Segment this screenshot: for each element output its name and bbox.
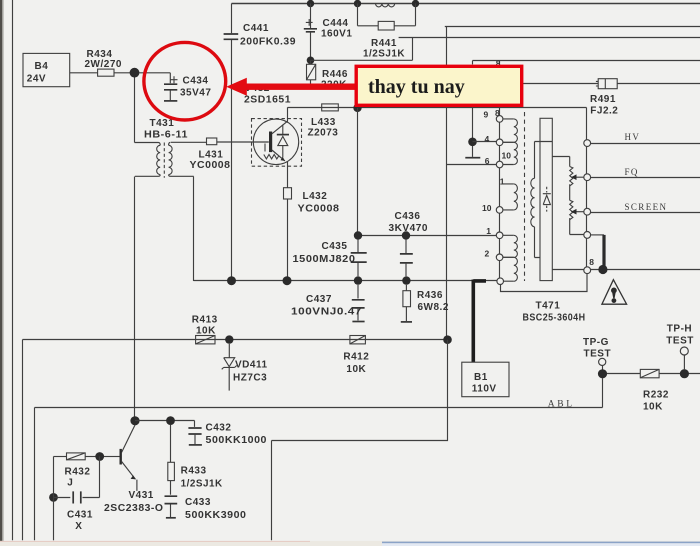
wire T431 bottom-right down to ground line: [193, 177, 195, 282]
svg-text:9: 9: [484, 109, 489, 119]
flyback T471: [482, 108, 586, 323]
svg-text:R412: R412: [343, 352, 369, 363]
svg-text:R446: R446: [322, 69, 348, 80]
resistor R232: [640, 369, 669, 412]
pin circle 8: [584, 267, 591, 274]
svg-text:1500MJ820: 1500MJ820: [293, 254, 356, 265]
svg-text:10: 10: [482, 203, 492, 213]
inductor L433: [322, 104, 339, 111]
node rail-R441: [412, 0, 419, 7]
thick wire to B1: [473, 280, 486, 363]
T471 winding 4-6: [503, 142, 514, 164]
T471 winding 9-4: [503, 119, 514, 142]
T471 winding 1-2: [503, 235, 514, 257]
wire 24V node down to T431: [134, 77, 136, 142]
pin circle 4: [496, 139, 503, 146]
svg-text:24V: 24V: [27, 74, 46, 85]
node collector/L433: [353, 104, 361, 112]
annotation red circle: [144, 42, 226, 120]
svg-text:C432: C432: [206, 423, 232, 434]
node rail-L: [354, 0, 361, 7]
svg-text:C433: C433: [185, 497, 211, 508]
node C441 gnd: [227, 276, 236, 285]
node C431 left: [49, 493, 58, 502]
svg-text:VD411: VD411: [235, 360, 268, 371]
wire left loop vertical: [53, 457, 55, 541]
svg-text:thay tu nay: thay tu nay: [368, 76, 465, 98]
svg-text:B1: B1: [474, 372, 488, 383]
svg-text:HB-6-11: HB-6-11: [144, 129, 188, 140]
svg-text:R413: R413: [192, 314, 218, 325]
resistor R446: [305, 60, 348, 90]
pin circle 1: [496, 232, 503, 239]
wire thick drop: [602, 235, 605, 268]
svg-text:YC0008: YC0008: [190, 160, 231, 171]
pin circle 8/9: [496, 116, 503, 123]
svg-text:J: J: [67, 478, 73, 489]
test point TP-H: [666, 323, 694, 369]
wire node down to snubber line: [357, 108, 359, 236]
svg-text:8: 8: [495, 108, 500, 118]
wire R434 to node: [114, 72, 170, 74]
wire ground drop to flyback pin4: [472, 61, 474, 157]
capacitor C433: [165, 481, 247, 521]
T471 HV secondary box: [540, 118, 552, 280]
node C436 top: [402, 231, 410, 239]
capacitor C432: [188, 423, 267, 447]
svg-text:C431: C431: [67, 509, 93, 520]
node emitter gnd: [283, 276, 292, 285]
wire collector line to flyback: [288, 107, 587, 109]
zener VD411: [222, 344, 268, 391]
wire FQ out: [591, 177, 700, 179]
capacitor C435: [293, 239, 367, 276]
svg-text:R232: R232: [643, 390, 669, 401]
wire B+ feed right: [445, 26, 700, 28]
svg-text:FJ2.2: FJ2.2: [590, 106, 618, 117]
node TP-H: [680, 369, 689, 378]
box B1 110V: [462, 362, 509, 397]
svg-text:TP-G: TP-G: [583, 337, 609, 348]
test point TP-G: [583, 337, 611, 370]
svg-text:4: 4: [485, 134, 490, 144]
node VD411: [225, 335, 233, 343]
node C435 gnd: [354, 276, 362, 284]
page border vertical rule: [12, 0, 14, 540]
T471 HV winding: [535, 142, 553, 179]
node C444/R446: [307, 57, 315, 65]
svg-text:R491: R491: [590, 94, 616, 105]
svg-text:200FK0.39: 200FK0.39: [240, 36, 296, 47]
bottom scan band: [0, 541, 700, 546]
node pin4 gnd: [468, 138, 477, 147]
T431 core: [163, 143, 165, 178]
svg-text:B4: B4: [35, 61, 49, 72]
inductor on top rail (cut off at top): [376, 4, 395, 7]
svg-text:2W/270: 2W/270: [85, 59, 122, 70]
svg-text:100VNJ0.47: 100VNJ0.47: [291, 307, 362, 318]
wire base node vertical: [99, 457, 101, 498]
pin circle bottom: [497, 278, 504, 285]
capacitor C434: [164, 73, 211, 101]
wire top rail: [232, 3, 700, 5]
annotation yellow note box: [356, 66, 522, 105]
pin circle HV: [584, 140, 591, 147]
pin circle SCREEN: [584, 208, 591, 215]
wire collector bus: [135, 421, 195, 427]
svg-text:8: 8: [589, 257, 594, 267]
node feedback/sense: [443, 335, 452, 344]
node abl: [598, 265, 607, 274]
wire right bus 2: [399, 37, 700, 39]
svg-text:C444: C444: [323, 18, 349, 29]
node R433 top: [166, 416, 175, 425]
wire T431 bottom-left down to V431 collector: [134, 177, 136, 417]
svg-text:C436: C436: [395, 211, 421, 222]
wire B4 to R434: [70, 72, 98, 74]
svg-text:6W8.2: 6W8.2: [418, 302, 449, 313]
resistor R432: [54, 453, 96, 489]
inductor L431: [207, 138, 217, 145]
svg-text:2SD1651: 2SD1651: [244, 95, 291, 106]
node C436 gnd: [402, 276, 410, 284]
capacitor C436: [389, 211, 429, 276]
pin circle 6: [496, 161, 503, 168]
node collector: [130, 416, 139, 425]
wire feedback to ABL corner: [272, 340, 448, 541]
svg-text:35V47: 35V47: [180, 88, 211, 99]
transistor V431: [104, 425, 164, 514]
svg-text:1/2SJ1K: 1/2SJ1K: [363, 49, 405, 60]
svg-text:L433: L433: [311, 117, 336, 128]
T471 winding 2-bot: [503, 257, 514, 281]
T471 winding 1-10: [503, 184, 514, 210]
wire L431 to V432 base: [217, 141, 269, 143]
resistor R433: [168, 425, 223, 489]
T471 primary pin line: [499, 116, 501, 278]
scan left dark edge: [0, 0, 2, 541]
wire pin6 to feedback line: [447, 164, 497, 166]
wire collector drop to pin 8: [499, 61, 501, 116]
svg-text:110V: 110V: [472, 384, 497, 395]
svg-text:V431: V431: [129, 490, 154, 501]
svg-text:ABL: ABL: [548, 399, 575, 409]
svg-text:160V1: 160V1: [321, 28, 352, 39]
node base: [95, 452, 104, 461]
svg-text:10K: 10K: [643, 401, 663, 412]
wire snubber line: [358, 235, 496, 237]
svg-text:C441: C441: [243, 23, 269, 34]
svg-text:T471: T471: [536, 300, 561, 311]
svg-text:TEST: TEST: [666, 336, 694, 347]
wire ground line: [194, 280, 497, 282]
ground: [465, 157, 480, 159]
svg-text:10K: 10K: [346, 364, 366, 375]
node TP-G: [598, 369, 607, 378]
svg-text:TEST: TEST: [584, 348, 612, 359]
wire sense line R413/R412: [23, 339, 448, 341]
annotation red arrow: [244, 84, 356, 90]
svg-text:HV: HV: [625, 132, 641, 142]
wire left rails: [22, 340, 24, 541]
HV diode: [546, 187, 548, 193]
svg-text:3KV470: 3KV470: [389, 223, 429, 234]
resistor R413: [192, 314, 218, 344]
node C435 top: [354, 231, 362, 239]
resistor R441: [358, 4, 416, 60]
svg-text:R432: R432: [65, 466, 91, 477]
svg-text:C437: C437: [306, 294, 332, 305]
svg-text:10: 10: [502, 150, 512, 160]
wire heater line: [520, 83, 700, 85]
wire vertical feedback line: [446, 27, 448, 340]
svg-text:SCREEN: SCREEN: [625, 202, 668, 212]
wire ABL line: [35, 378, 603, 407]
svg-text:YC0008: YC0008: [298, 204, 340, 215]
svg-text:TP-H: TP-H: [667, 323, 692, 334]
resistor R412: [343, 336, 369, 375]
node 24V: [130, 68, 140, 78]
svg-text:6: 6: [485, 156, 490, 166]
svg-text:500KK1000: 500KK1000: [206, 435, 268, 446]
svg-text:R436: R436: [417, 290, 443, 301]
wire gnd node to pin 4: [473, 141, 497, 143]
box B4 24V: [23, 53, 70, 86]
wire flyback bottom loop: [501, 274, 588, 292]
focus pot: [552, 157, 584, 201]
capacitor C431: [54, 491, 100, 532]
wire TP-G to R232: [607, 373, 640, 375]
svg-text:2SC2383-O: 2SC2383-O: [104, 503, 164, 514]
svg-text:R433: R433: [181, 465, 207, 476]
wire V432 emitter down: [287, 199, 289, 281]
warning triangle: [602, 280, 627, 305]
node rail-C444: [307, 0, 314, 7]
svg-text:10K: 10K: [196, 325, 216, 336]
svg-text:Z2073: Z2073: [308, 127, 339, 138]
resistor R436: [401, 285, 449, 322]
svg-text:FQ: FQ: [625, 167, 639, 177]
wire SCREEN out: [591, 212, 700, 214]
T431 secondary winding: [169, 142, 207, 145]
svg-text:2: 2: [485, 249, 490, 259]
capacitor C441: [224, 4, 296, 282]
inductor L432: [284, 188, 292, 199]
svg-text:C434: C434: [183, 75, 209, 86]
wire B+ bus to flyback: [473, 60, 700, 62]
transformer T431: [135, 118, 207, 178]
pin circle FQ: [584, 174, 591, 181]
T431 primary winding: [135, 142, 161, 145]
capacitor C444: [304, 4, 353, 61]
transistor V432 2SD1651: [244, 83, 302, 188]
capacitor C437: [291, 285, 365, 322]
screen pot: [570, 200, 584, 234]
svg-text:1/2SJ1K: 1/2SJ1K: [181, 478, 223, 489]
wire pin4 out: [591, 234, 604, 236]
pin circle 10: [496, 207, 503, 214]
svg-text:X: X: [75, 521, 82, 532]
svg-text:500KK3900: 500KK3900: [185, 510, 247, 521]
svg-text:R441: R441: [371, 38, 397, 49]
wire abl head: [552, 269, 700, 271]
svg-text:HZ7C3: HZ7C3: [233, 373, 267, 384]
wire HV out: [591, 143, 700, 145]
resistor R491 fuse: [590, 79, 618, 117]
svg-text:1: 1: [486, 226, 491, 236]
wire right pin column: [586, 108, 588, 268]
pin circle 4th: [584, 232, 591, 239]
svg-text:BSC25-3604H: BSC25-3604H: [523, 312, 586, 323]
svg-text:L431: L431: [199, 150, 224, 161]
wire node to R441 corner: [311, 38, 413, 61]
svg-text:C435: C435: [322, 241, 348, 252]
T471 core: [524, 112, 526, 281]
svg-text:1: 1: [500, 177, 505, 187]
wire R232 to TP-H: [659, 373, 700, 375]
pin circle 2: [496, 254, 503, 261]
svg-text:L432: L432: [303, 191, 328, 202]
resistor R434: [98, 69, 114, 76]
